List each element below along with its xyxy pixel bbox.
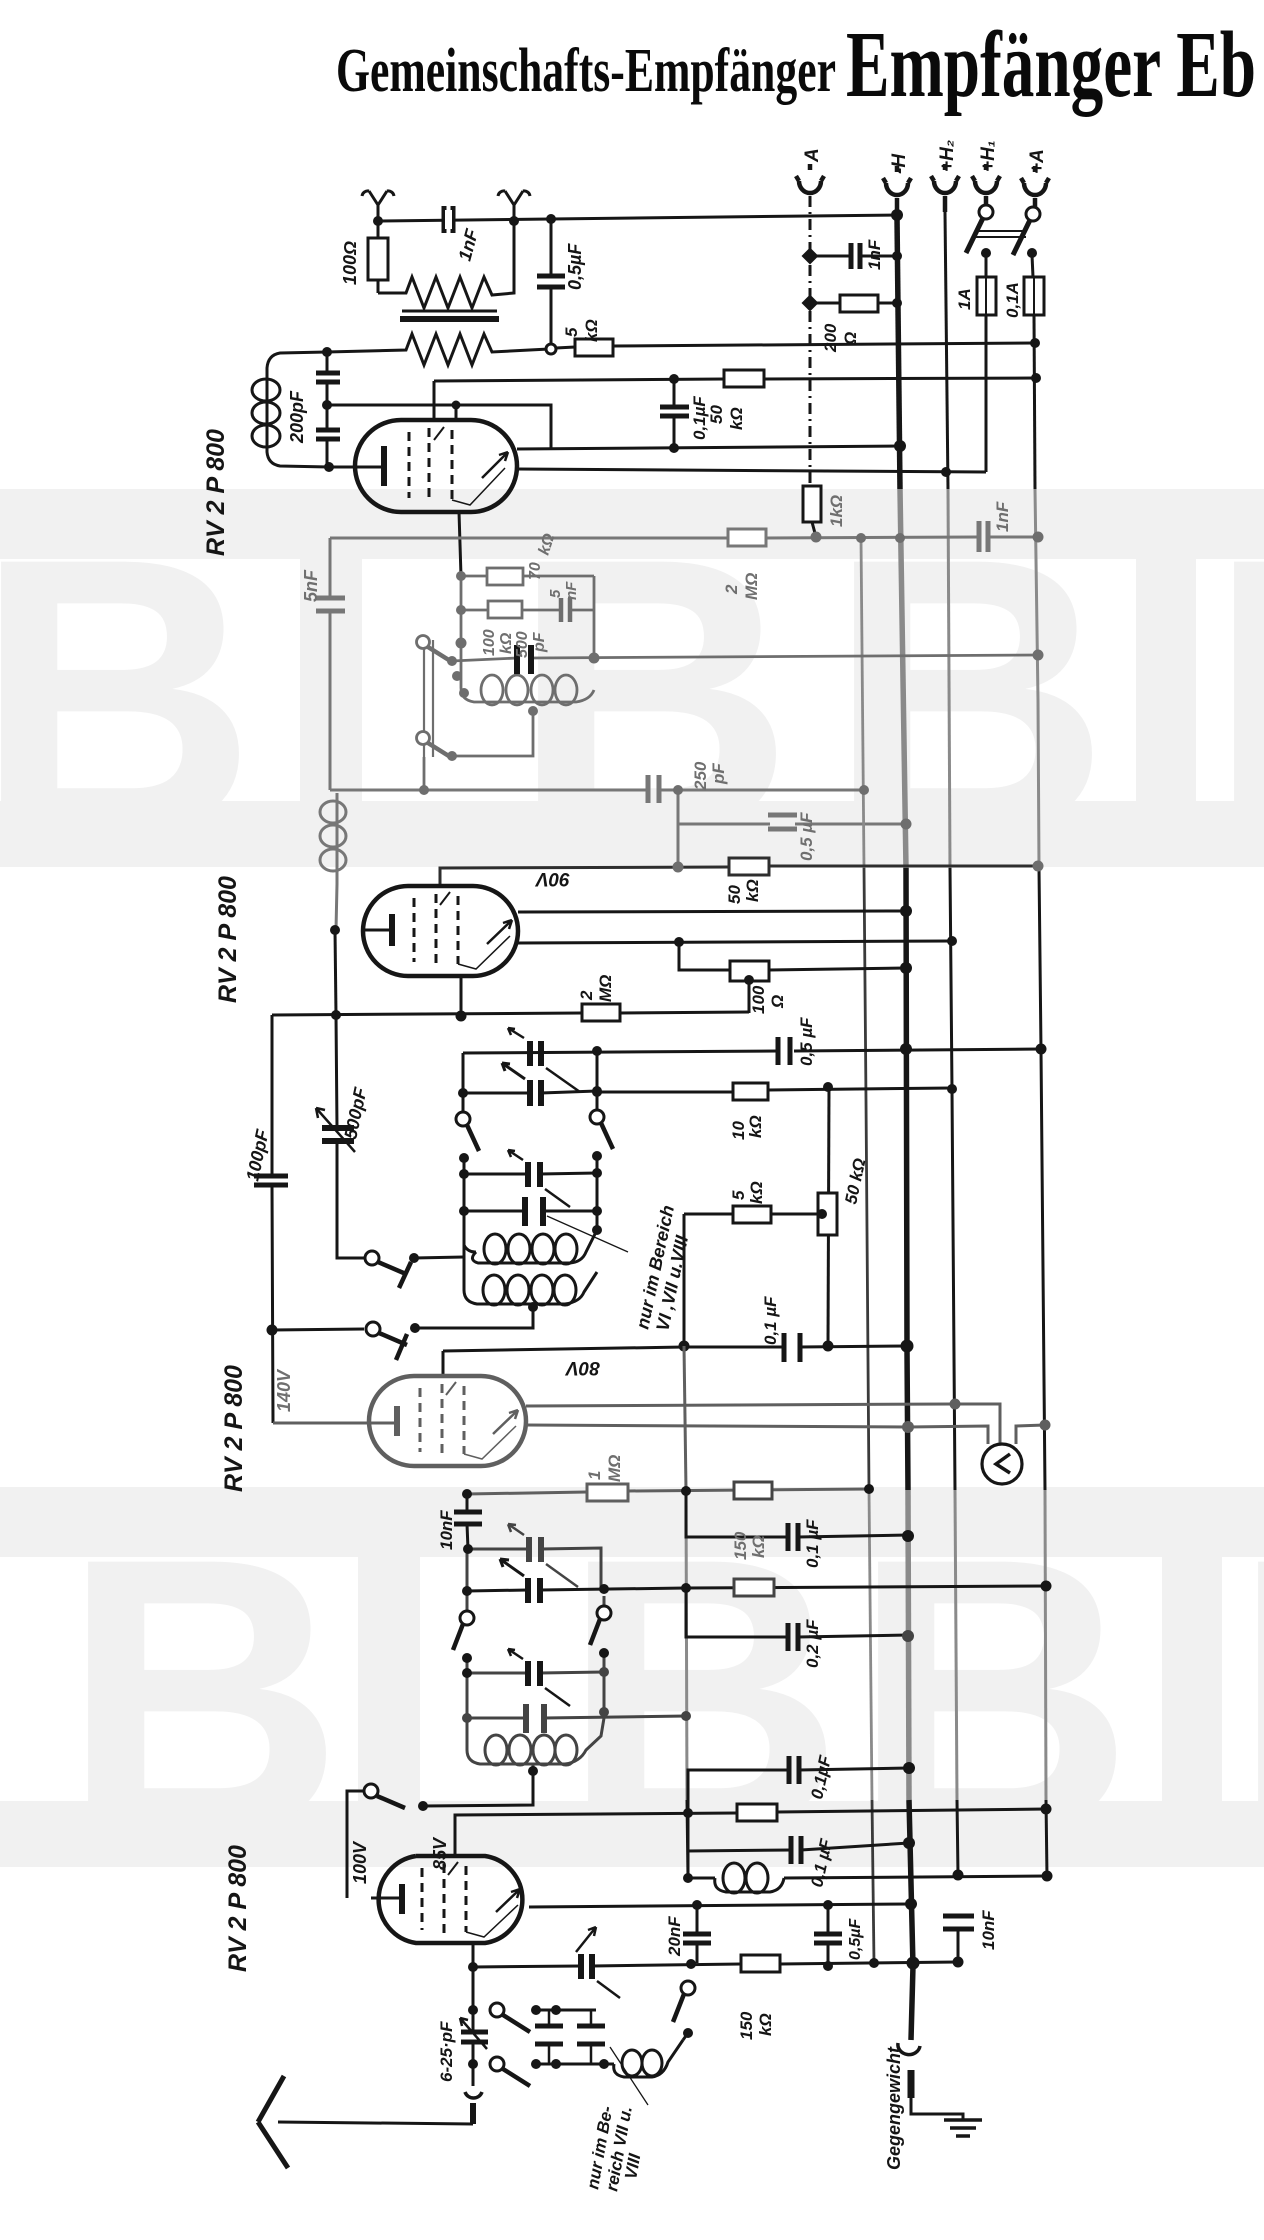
svg-text:0,5 µF: 0,5 µF <box>797 812 816 861</box>
wire cathode tube1 <box>329 466 371 469</box>
node A dash-dot line <box>809 196 812 486</box>
resistor 100kOhm <box>461 609 594 612</box>
capacitor fixed C4 <box>525 1197 543 1226</box>
tube RV2P800 no.3 envelope <box>369 1376 526 1466</box>
svg-text:kΩ: kΩ <box>582 319 601 342</box>
svg-text:kΩ: kΩ <box>743 879 762 902</box>
switch 100V <box>364 1784 378 1798</box>
tube RV2P800 no.1 envelope <box>355 420 517 512</box>
cap E1 <box>548 2010 551 2064</box>
svg-text:+H₂: +H₂ <box>937 140 958 172</box>
watermark band 1 top strip <box>0 489 1264 559</box>
tube2 cathode bar <box>389 914 395 946</box>
svg-text:50: 50 <box>707 405 726 424</box>
line x337 (500pF var) <box>336 1015 364 1258</box>
pot 100 Ohm drop <box>679 942 730 970</box>
switch lever upper <box>417 636 430 649</box>
svg-text:0,1A: 0,1A <box>1003 282 1022 318</box>
capacitor fixed D4 <box>526 1704 544 1733</box>
svg-text:2: 2 <box>722 584 741 595</box>
wire y1847 (0,1uF 2nd) <box>688 1813 909 1851</box>
svg-text:B: B <box>1208 477 1264 913</box>
svg-text:0,1µF: 0,1µF <box>690 396 709 440</box>
resistor 50kOhm (grid tube2) <box>729 858 769 875</box>
wire +A to fuse 0,1A <box>1032 255 1033 277</box>
svg-text:5: 5 <box>562 327 581 337</box>
tube3 cathode wire 140V <box>273 1422 369 1425</box>
capacitor 10nF vertical <box>467 1494 468 1549</box>
svg-text:kΩ: kΩ <box>746 1115 765 1138</box>
svg-text:A: A <box>802 148 823 163</box>
wire y790 <box>330 789 864 792</box>
svg-text:Gemeinschafts-Empfänger: Gemeinschafts-Empfänger <box>336 37 836 105</box>
tuning block top wire y1051 <box>463 1049 1041 1053</box>
switch circle 5k wire <box>546 344 556 354</box>
svg-text:150: 150 <box>737 2011 756 2040</box>
500pF variable arrow <box>316 1108 355 1152</box>
wire y405 <box>327 405 551 448</box>
wire lever to block <box>414 1257 464 1258</box>
wire y1211 <box>464 1210 597 1213</box>
capacitor 0,5uF (AVC) <box>778 1037 790 1065</box>
variable cap (y1966) <box>581 1954 592 1979</box>
terminal A arrow <box>796 164 824 193</box>
switch wafer lines <box>424 640 433 757</box>
wire y345 to +A <box>613 343 1035 346</box>
variable cap C3 <box>528 1162 540 1187</box>
capacitor 250pF <box>648 775 659 803</box>
svg-text:200pF: 200pF <box>287 390 307 444</box>
tube3 anode arrow <box>493 1410 518 1434</box>
terminal +A arrow <box>1021 166 1049 207</box>
tube2 anode arrow <box>487 920 512 944</box>
resistor 70kOhm <box>461 575 594 578</box>
wire tube2 y941 <box>518 941 952 943</box>
leader line <box>547 1216 628 1252</box>
svg-text:140V: 140V <box>274 1368 294 1412</box>
fuse 1A <box>977 277 996 315</box>
svg-text:0,5 µF: 0,5 µF <box>797 1017 816 1066</box>
line x828 <box>828 1087 829 1345</box>
coil bottom mid <box>715 1878 784 1892</box>
wire y448 <box>517 446 900 449</box>
pot tap to 2M wire <box>748 981 751 1013</box>
wire y1093 <box>463 1091 597 1093</box>
switch lever lower <box>417 732 430 745</box>
svg-text:100Ω: 100Ω <box>340 241 360 285</box>
svg-text:5nF: 5nF <box>301 569 321 602</box>
cluster bottom wire <box>536 2063 614 2066</box>
wire y1537 (0,1uF) <box>686 1491 908 1537</box>
svg-text:1: 1 <box>585 1471 604 1480</box>
tube RV2P800 no.4 envelope <box>379 1856 523 1943</box>
svg-text:+A: +A <box>1027 149 1048 174</box>
cluster caps top wire <box>536 2009 596 2012</box>
svg-text:2: 2 <box>577 990 596 1001</box>
resistor 50kOhm top <box>724 370 764 387</box>
wire to antenna arrow <box>278 2122 473 2124</box>
capacitor 100pF <box>254 1176 288 1185</box>
terminal stub y1258 <box>399 1262 411 1288</box>
switch lever y1258 <box>365 1251 379 1265</box>
right vertical tuning block <box>596 1051 599 1110</box>
capacitor 0,5uF top <box>550 219 553 345</box>
bandswitch1 vertical right <box>593 576 596 658</box>
svg-text:Ω: Ω <box>768 995 787 1009</box>
cap E2 <box>590 2010 593 2064</box>
svg-text:6-25·pF: 6-25·pF <box>437 2021 456 2082</box>
wire y1673 <box>467 1672 604 1673</box>
resistor 5kOhm <box>556 347 575 348</box>
trimmer 6-25pF <box>461 2032 488 2042</box>
branch 0,5uF rotated <box>678 790 906 866</box>
wire y1550 <box>468 1548 601 1588</box>
svg-text:250: 250 <box>691 761 710 791</box>
capacitor 10nF (+H2 line) <box>943 1916 974 1929</box>
earth connection <box>911 2098 963 2120</box>
wire y1965 (150k) <box>473 1962 958 1967</box>
coil L2 <box>464 1245 597 1309</box>
wire y1013 grid3 tube2 <box>272 1012 749 1015</box>
wire y866 grid2 tube2 <box>440 858 1038 886</box>
fuse 0,1A <box>1024 277 1044 315</box>
antenna arrow <box>258 2076 288 2168</box>
wire y538 (2M line) <box>330 537 1038 538</box>
watermark letters row 2 <box>62 1477 1264 1913</box>
svg-text:0,5µF: 0,5µF <box>847 1918 864 1960</box>
svg-text:B: B <box>828 477 1110 913</box>
wire y1346 main <box>443 1346 907 1376</box>
svg-text:kΩ: kΩ <box>498 632 515 654</box>
frame left x684 <box>683 1214 686 1346</box>
antenna terminal Y2 <box>498 191 530 221</box>
capacitor 1nF (gray, -H to +A) <box>979 521 988 552</box>
tube2 cathode line down <box>335 930 336 1015</box>
svg-text:B: B <box>62 1477 344 1913</box>
variable cap D3 <box>528 1661 540 1686</box>
dots bottom <box>468 1762 1053 2069</box>
wire tube3 anode y1427 <box>526 1425 988 1444</box>
wire y658 (500pF line) <box>452 655 1038 661</box>
wire y1174 <box>464 1173 597 1174</box>
svg-text:500: 500 <box>514 631 531 658</box>
switch gang link bars <box>976 231 1026 237</box>
wire y1330 <box>272 1329 364 1330</box>
bus -H thick <box>897 217 900 489</box>
wire fuse 1A down <box>985 315 988 472</box>
junction dots band1 <box>419 532 1044 873</box>
branch 20nF <box>696 1905 699 1963</box>
capacitor 200pF upper <box>316 373 340 382</box>
dots tube2/tuning region <box>267 905 1047 1353</box>
svg-text:kΩ: kΩ <box>747 1181 766 1204</box>
resistor 2MOhm <box>728 529 766 546</box>
resistor (y1588) <box>734 1579 774 1596</box>
variable cap C1 <box>530 1041 541 1066</box>
resistor (85V wire) <box>737 1804 777 1821</box>
Gegengewicht arc terminal <box>898 2043 920 2055</box>
resistor 2MOhm (tube2 grid) <box>582 1004 620 1021</box>
svg-text:-H: -H <box>889 153 910 174</box>
wire y1092 (10k) <box>597 1088 952 1092</box>
terminal stub y1330 <box>396 1334 407 1360</box>
bandswitch1 vertical left <box>460 576 463 643</box>
tube RV2P800 no.2 envelope <box>363 886 518 976</box>
resistor 150kOhm (y1490 area) <box>734 1482 772 1499</box>
switch lower <box>490 2057 504 2071</box>
resistor 10kOhm <box>733 1083 768 1100</box>
capacitor 200pF lower <box>316 430 340 439</box>
coil L3 <box>467 1718 604 1774</box>
svg-text:Empfänger Eb: Empfänger Eb <box>846 13 1256 117</box>
svg-text:200: 200 <box>821 323 840 353</box>
svg-text:70: 70 <box>527 562 544 580</box>
svg-text:0,5µF: 0,5µF <box>565 243 585 290</box>
wire 1M y1490 <box>467 1489 869 1494</box>
terminal +H2 arrow <box>931 164 959 212</box>
svg-text:Gegengewicht: Gegengewicht <box>884 2046 904 2170</box>
wire y1637 (0,2uF) <box>686 1588 908 1637</box>
watermark letters row 1 <box>0 477 1264 913</box>
svg-text:MΩ: MΩ <box>605 1455 624 1482</box>
wire +H1 to fuse <box>985 253 988 277</box>
corner x272 down <box>272 1015 273 1423</box>
tube1 grid2 lead <box>455 405 458 420</box>
svg-text:10nF: 10nF <box>437 1510 456 1550</box>
left vertical tuning block <box>462 1053 465 1112</box>
right vertical lower cluster <box>603 1596 606 1606</box>
switch 20nF branch <box>681 1981 695 1995</box>
antenna terminal Y1 <box>362 191 394 221</box>
switch upper (6-25pF bypass) <box>490 2003 504 2017</box>
branch 0,5uF bottom <box>827 1905 830 1965</box>
wire 85V <box>455 1809 1046 1856</box>
svg-text:80V: 80V <box>565 1357 600 1378</box>
capacitor 0,5uF rotated bars <box>768 815 797 829</box>
voltmeter V <box>982 1444 1022 1484</box>
resistor 1kOhm in A line <box>812 486 816 537</box>
capacitor 0,1uF (top) <box>673 379 676 448</box>
resistor zigzag lower <box>327 334 549 365</box>
coil L1 <box>472 1230 597 1263</box>
svg-text:5: 5 <box>547 589 564 598</box>
switch contact +H1 <box>979 205 993 219</box>
capacitor 5nF small <box>561 598 570 622</box>
svg-text:+H₁: +H₁ <box>978 140 999 172</box>
tube4 grid3 chain <box>472 1943 475 2086</box>
wire tube2 anode y911 <box>518 911 906 912</box>
svg-text:nF: nF <box>563 581 580 600</box>
wire x424 down to y790 <box>423 757 426 790</box>
svg-text:1nF: 1nF <box>993 501 1012 532</box>
svg-text:B: B <box>1232 1477 1264 1913</box>
wire top y219 <box>378 215 897 221</box>
tube1 anode arrow <box>482 452 508 478</box>
capacitor 500pF bars (black) <box>517 645 531 674</box>
earth symbol <box>944 2120 982 2136</box>
svg-text:100V: 100V <box>350 1840 370 1884</box>
coil antenna left <box>267 352 329 467</box>
transformer core bars <box>402 310 497 313</box>
capacitor 0,1uF (y1346) <box>784 1333 800 1362</box>
svg-text:1nF: 1nF <box>865 239 884 270</box>
svg-text:kΩ: kΩ <box>749 1535 768 1558</box>
bus +H2 vertical <box>945 212 948 489</box>
junction dots top-right <box>802 209 1041 477</box>
coil1 tap tail <box>452 711 533 756</box>
left vertical lower cluster <box>466 1549 469 1611</box>
svg-text:10nF: 10nF <box>979 1910 998 1950</box>
tube2 grid3 lead down <box>460 976 463 1016</box>
tube1 cathode bar <box>381 446 387 486</box>
tube1 bottom grid lead <box>459 512 461 576</box>
resistor zigzag upper <box>378 221 514 308</box>
dots band2 <box>418 1399 1052 1812</box>
tube3 grids dashed <box>419 1388 422 1452</box>
svg-text:5: 5 <box>729 1190 748 1200</box>
wire y1770 (0,1uF top) <box>688 1768 909 1813</box>
wire tube3 grid2 y1404 <box>526 1404 1000 1444</box>
svg-text:20nF: 20nF <box>665 1916 684 1957</box>
coil bandswitch1 <box>461 643 594 702</box>
svg-text:0,2 µF: 0,2 µF <box>803 1619 822 1668</box>
svg-text:RV 2 P 800: RV 2 P 800 <box>224 1845 252 1972</box>
terminal -H arrow <box>883 166 911 215</box>
svg-text:50: 50 <box>725 885 744 904</box>
svg-text:RV 2 P 800: RV 2 P 800 <box>202 429 230 556</box>
wire anode tube1 y472 <box>517 469 986 472</box>
resistor 5kOhm (pot wire) <box>733 1206 771 1223</box>
wire y1878 coil <box>688 1851 1047 1878</box>
variable cap D2 <box>528 1578 540 1603</box>
tube4 cathode bar <box>399 1884 405 1914</box>
svg-text:B: B <box>852 1477 1134 1913</box>
svg-text:MΩ: MΩ <box>742 573 761 600</box>
resistor 1MOhm <box>587 1484 628 1501</box>
watermark band 2 top strip <box>0 1487 1264 1557</box>
svg-text:0,1 µF: 0,1 µF <box>761 1296 780 1345</box>
wire y380 grid to +A <box>434 378 1036 420</box>
variable cap D1 <box>529 1537 541 1562</box>
tube1 grids dashed <box>408 432 411 498</box>
capacitor 500pF variable bars <box>322 1128 354 1141</box>
tube4 anode arrow <box>496 1889 520 1912</box>
coil L3 tap tail <box>423 1774 533 1806</box>
svg-text:0,1 µF: 0,1 µF <box>803 1519 822 1568</box>
svg-text:kΩ: kΩ <box>727 407 746 430</box>
switch contact +A <box>1026 207 1040 221</box>
svg-text:kΩ: kΩ <box>756 2013 775 2036</box>
svg-text:RV 2 P 800: RV 2 P 800 <box>220 1365 248 1492</box>
coil small bottom <box>614 2040 683 2077</box>
svg-text:1kΩ: 1kΩ <box>827 495 846 527</box>
tube2 grids dashed <box>413 898 416 962</box>
tube4 grids dashed <box>421 1868 424 1930</box>
junction dots top-left <box>322 214 679 472</box>
svg-text:150: 150 <box>731 1531 750 1560</box>
svg-text:pF: pF <box>709 763 728 785</box>
antenna feed symbol <box>465 2092 482 2098</box>
wire y1590 <box>467 1586 1046 1591</box>
vertical line x864 <box>861 538 864 868</box>
wire y1718 <box>467 1716 686 1718</box>
resistor 200 Ohm <box>810 302 897 305</box>
capacitor 1nF (A to -H) <box>810 255 897 258</box>
wire tube4 anode y1906 <box>529 1904 911 1907</box>
wire 5k to pot <box>684 1213 822 1216</box>
svg-text:100: 100 <box>749 985 768 1014</box>
svg-text:85V: 85V <box>430 1836 450 1870</box>
variable cap C2 <box>530 1080 541 1106</box>
svg-text:pF: pF <box>531 631 548 653</box>
svg-text:MΩ: MΩ <box>596 975 615 1002</box>
svg-text:90V: 90V <box>535 868 570 889</box>
capacitor 5nF branch <box>329 538 332 790</box>
svg-text:100: 100 <box>481 629 498 656</box>
svg-text:1A: 1A <box>955 288 974 310</box>
potentiometer 50kOhm <box>818 1193 837 1235</box>
capacitor 1nF (antenna series) <box>444 206 453 233</box>
tube3 cathode bar <box>394 1406 400 1436</box>
resistor 150kOhm bottom <box>741 1955 780 1972</box>
terminal +H1 arrow <box>972 164 1000 205</box>
watermark band 1 bottom strip <box>0 801 1264 867</box>
bus +A vertical <box>1034 315 1035 489</box>
svg-text:Ω: Ω <box>841 332 860 346</box>
line x686 long <box>684 1346 686 1490</box>
watermark band 2 bottom strip <box>0 1801 1264 1867</box>
resistor 100 Ohm (vertical) <box>377 221 380 293</box>
svg-text:RV 2 P 800: RV 2 P 800 <box>214 876 242 1003</box>
coil above tube2 <box>336 793 337 930</box>
leader line bottom <box>610 2047 648 2105</box>
wire pot right y968 <box>769 968 906 970</box>
potentiometer 100 Ohm <box>730 961 769 981</box>
